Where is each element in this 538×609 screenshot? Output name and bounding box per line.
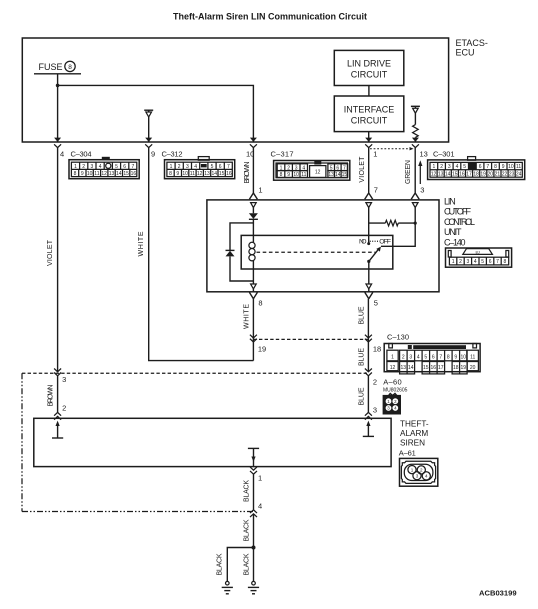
chevrons up pin2 siren (54, 412, 61, 419)
connector C-140 (446, 248, 512, 267)
wire interface to pin 1 (368, 132, 370, 142)
wire brown 3 to 2 (57, 376, 59, 413)
svg-text:8: 8 (504, 259, 507, 265)
exit triangle pin 5 (366, 284, 372, 289)
chevrons 2 on blue wire (365, 369, 372, 376)
svg-text:4: 4 (60, 149, 64, 158)
wire VIOLET pin4 down (57, 148, 59, 372)
svg-text:VIOLET: VIOLET (359, 156, 366, 183)
svg-text:8: 8 (74, 171, 77, 177)
in-line connector 19 chevrons (250, 335, 257, 342)
relay coil (249, 242, 255, 261)
svg-text:3: 3 (467, 259, 470, 265)
pin 9 ETACS connector symbol (145, 138, 152, 148)
LIN DRIVE CIRCUIT box (334, 50, 404, 85)
svg-text:9: 9 (81, 171, 84, 177)
svg-text:NO: NO (359, 239, 367, 246)
svg-text:8: 8 (494, 164, 497, 170)
svg-text:C–312: C–312 (162, 149, 183, 158)
svg-text:5: 5 (115, 164, 118, 170)
svg-text:9: 9 (502, 164, 505, 170)
svg-text:CIRCUIT: CIRCUIT (351, 70, 388, 80)
ground right (248, 581, 259, 593)
flyback diode branch wire (230, 223, 253, 250)
svg-text:5: 5 (463, 164, 466, 170)
svg-text:9: 9 (151, 149, 155, 158)
wire pivot down pin 5 (368, 261, 370, 284)
dots between NO OFF (370, 240, 379, 242)
fuse FUSE 8 (34, 61, 81, 74)
svg-text:ECU: ECU (456, 48, 475, 58)
svg-text:5: 5 (211, 164, 214, 170)
svg-text:1: 1 (391, 354, 394, 360)
svg-text:3: 3 (91, 164, 94, 170)
svg-text:16: 16 (459, 172, 465, 178)
wire pin3 down to OFF (381, 208, 415, 247)
exit triangle pin 8 (251, 284, 257, 289)
wire pin8 down (white) (252, 299, 254, 361)
connector A-61 (400, 458, 438, 486)
svg-text:21: 21 (495, 172, 501, 178)
relay box (241, 235, 393, 269)
wire fuse branch to pin 10 (58, 85, 254, 142)
svg-text:SIREN: SIREN (400, 439, 425, 448)
svg-text:2: 2 (82, 164, 85, 170)
connector C-304 (69, 157, 139, 179)
direction arrow up (green wire) (418, 160, 422, 184)
entry triangle pin 7 (366, 203, 372, 208)
LIN unit pin 1 fork (249, 193, 257, 199)
svg-text:7: 7 (496, 259, 499, 265)
svg-text:1: 1 (258, 186, 262, 195)
svg-text:22: 22 (502, 172, 508, 178)
svg-text:THEFT-: THEFT- (400, 420, 429, 429)
svg-text:LIN: LIN (444, 196, 456, 206)
svg-text:3: 3 (420, 186, 424, 195)
LIN pin 5 fork (365, 292, 373, 298)
svg-text:15: 15 (123, 171, 129, 177)
wire WHITE C-312 down (149, 148, 254, 361)
label LIN CUTOFF CONTROL UNIT C-140 (444, 196, 475, 247)
svg-text:A–60: A–60 (383, 378, 402, 387)
svg-text:12: 12 (315, 170, 321, 176)
pin 1 ETACS connector symbol (365, 138, 372, 148)
svg-text:14: 14 (445, 172, 451, 178)
junction dot pin3 wire (414, 222, 417, 225)
in-line connector 18 chevrons (365, 335, 372, 342)
svg-text:C–301: C–301 (433, 149, 455, 158)
chevrons 3 on violet wire (54, 369, 61, 376)
svg-text:15: 15 (423, 365, 429, 371)
LIN unit pin 3 fork (411, 193, 419, 199)
label THEFT-ALARM SIREN A-61 (400, 420, 429, 448)
svg-text:11: 11 (190, 171, 195, 177)
svg-text:BLACK: BLACK (216, 553, 223, 575)
svg-text:2: 2 (62, 404, 66, 413)
svg-text:BLUE: BLUE (358, 387, 365, 405)
svg-text:20: 20 (470, 365, 476, 371)
svg-text:1: 1 (170, 164, 173, 170)
svg-text:1: 1 (433, 164, 436, 170)
svg-text:15: 15 (219, 171, 225, 177)
dash-dot box left vertical (21, 373, 23, 511)
svg-text:C–140: C–140 (444, 238, 466, 248)
svg-text:8: 8 (68, 64, 72, 71)
svg-text:BLUE: BLUE (358, 306, 365, 324)
svg-text:A–61: A–61 (399, 449, 416, 458)
svg-text:18: 18 (373, 345, 381, 354)
svg-text:9: 9 (176, 171, 179, 177)
connector C-130 (384, 344, 480, 374)
wire green to resistor (414, 113, 416, 124)
svg-text:3: 3 (448, 164, 451, 170)
svg-text:16: 16 (131, 171, 137, 177)
svg-text:10: 10 (182, 171, 188, 177)
svg-text:8: 8 (280, 172, 283, 178)
svg-text:10: 10 (293, 172, 299, 178)
svg-text:4: 4 (258, 501, 262, 510)
wire black 1 to 4 (253, 474, 255, 510)
pin 13 ETACS connector symbol (412, 138, 419, 148)
svg-text:12: 12 (197, 171, 203, 177)
dash-dot box bottom (22, 511, 254, 513)
svg-text:3: 3 (62, 375, 66, 384)
svg-text:13: 13 (109, 171, 115, 177)
svg-text:BLUE: BLUE (358, 348, 365, 366)
svg-text:Theft-Alarm Siren LIN Communic: Theft-Alarm Siren LIN Communication Circ… (173, 12, 367, 22)
svg-text:2: 2 (178, 164, 181, 170)
dotted link pin1-pin13 (370, 147, 414, 150)
entry triangle pin 3 (412, 203, 418, 208)
dashed line y373 (22, 372, 368, 374)
svg-text:CIRCUIT: CIRCUIT (351, 116, 388, 126)
node green-wire source symbol (411, 106, 420, 113)
svg-text:24: 24 (516, 172, 522, 178)
theft-alarm siren box (34, 418, 391, 466)
svg-text:16: 16 (226, 171, 232, 177)
wire diode to coil (252, 219, 254, 242)
svg-text:19: 19 (461, 365, 467, 371)
svg-text:BLACK: BLACK (243, 553, 250, 575)
svg-text:BLACK: BLACK (243, 480, 250, 502)
pin 10 ETACS connector symbol (250, 138, 257, 148)
svg-text:6: 6 (479, 164, 482, 170)
svg-text:15: 15 (342, 172, 348, 178)
entry triangle pin 1 (251, 203, 257, 208)
svg-text:13: 13 (328, 172, 334, 178)
svg-text:1: 1 (373, 149, 377, 158)
svg-text:2: 2 (420, 468, 423, 473)
svg-text:20: 20 (488, 172, 494, 178)
svg-text:3: 3 (416, 474, 419, 479)
svg-text:6: 6 (123, 164, 126, 170)
svg-text:11: 11 (470, 354, 475, 360)
connector C-317 (274, 160, 350, 180)
wire pin1 to diode (252, 208, 254, 214)
svg-text:WHITE: WHITE (138, 231, 145, 256)
chevrons 1 below siren (250, 467, 257, 474)
svg-text:3: 3 (409, 354, 412, 360)
svg-text:10: 10 (461, 354, 467, 360)
svg-text:BROWN: BROWN (244, 162, 251, 184)
svg-text:19: 19 (480, 172, 486, 178)
branch wire to left ground (227, 548, 253, 582)
svg-text:14: 14 (335, 172, 341, 178)
svg-text:6: 6 (489, 259, 492, 265)
svg-text:8: 8 (258, 299, 262, 308)
svg-text:ETACS-: ETACS- (456, 38, 488, 48)
svg-text:19: 19 (258, 345, 266, 354)
svg-text:7: 7 (439, 354, 442, 360)
svg-text:9: 9 (287, 172, 290, 178)
pivot dot (367, 260, 370, 263)
svg-text:18: 18 (453, 365, 459, 371)
svg-text:1: 1 (452, 259, 455, 265)
svg-text:17: 17 (438, 365, 444, 371)
svg-text:C–317: C–317 (271, 149, 294, 158)
svg-text:WHITE: WHITE (243, 304, 250, 329)
NO terminal dot (367, 242, 370, 245)
svg-text:7: 7 (374, 186, 378, 195)
svg-text:1: 1 (258, 474, 262, 483)
LIN pin 8 fork (249, 292, 257, 298)
svg-text:4: 4 (99, 164, 102, 170)
svg-text:5: 5 (374, 299, 378, 308)
svg-text:C–304: C–304 (71, 149, 92, 158)
connector A-60 (383, 393, 400, 414)
svg-text:12: 12 (431, 172, 437, 178)
pin 4 ETACS connector symbol (54, 138, 61, 148)
svg-text:15: 15 (452, 172, 458, 178)
svg-text:8J: 8J (475, 250, 479, 255)
wire between circuit boxes (368, 86, 370, 97)
wire GREEN pin13 to LIN pin 3 (414, 148, 416, 193)
svg-text:5: 5 (481, 259, 484, 265)
node white-wire source symbol (144, 110, 153, 117)
svg-text:4: 4 (194, 164, 197, 170)
svg-text:2: 2 (440, 164, 443, 170)
connector C-312 (165, 157, 235, 179)
svg-text:4: 4 (474, 259, 477, 265)
svg-text:16: 16 (431, 365, 437, 371)
svg-text:1: 1 (74, 164, 77, 170)
chevrons up 4 (250, 510, 257, 517)
svg-text:ACB03199: ACB03199 (479, 589, 517, 598)
chevrons up pin3 siren (365, 412, 372, 419)
wire black 4 to junction (253, 514, 255, 582)
svg-text:23: 23 (509, 172, 515, 178)
svg-text:3: 3 (373, 405, 377, 414)
svg-text:9: 9 (454, 354, 457, 360)
svg-text:8: 8 (447, 354, 450, 360)
svg-text:MU802605: MU802605 (383, 388, 408, 394)
svg-text:CONTROL: CONTROL (444, 217, 475, 227)
LIN cutoff control unit box (207, 200, 439, 292)
svg-text:11: 11 (516, 164, 521, 170)
svg-text:11: 11 (301, 172, 306, 178)
svg-text:13: 13 (438, 172, 444, 178)
LIN unit pin 7 fork (365, 193, 373, 199)
svg-text:2: 2 (402, 354, 405, 360)
svg-text:BLACK: BLACK (243, 519, 250, 541)
svg-text:14: 14 (408, 365, 414, 371)
dashed linkage coil-switch (257, 251, 376, 253)
svg-text:12: 12 (390, 365, 396, 371)
svg-text:13: 13 (420, 149, 428, 158)
svg-text:GREEN: GREEN (405, 160, 412, 184)
flyback diode D2 (226, 250, 235, 256)
svg-text:7: 7 (227, 164, 230, 170)
svg-text:1: 1 (411, 467, 414, 472)
siren pin2 internal arrow (52, 421, 63, 438)
svg-text:BROWN: BROWN (48, 385, 55, 407)
svg-text:10: 10 (87, 171, 93, 177)
svg-text:UNIT: UNIT (444, 227, 462, 237)
wire pin7 down to NO (368, 208, 370, 244)
svg-text:2: 2 (459, 259, 462, 265)
wire to pin 9 (148, 117, 150, 142)
switch arm (369, 247, 381, 262)
svg-text:INTERFACE: INTERFACE (344, 105, 395, 115)
svg-text:VIOLET: VIOLET (47, 239, 54, 266)
svg-text:5: 5 (424, 354, 427, 360)
svg-text:6: 6 (432, 354, 435, 360)
svg-text:C–130: C–130 (387, 333, 409, 342)
svg-text:12: 12 (101, 171, 107, 177)
dashed line C-130 (253, 338, 368, 340)
svg-text:LIN DRIVE: LIN DRIVE (347, 59, 391, 69)
wire blue 2 to 3 (367, 376, 369, 413)
svg-text:11: 11 (94, 171, 99, 177)
svg-text:3: 3 (186, 164, 189, 170)
svg-text:FUSE: FUSE (39, 62, 63, 72)
svg-text:CUTOFF: CUTOFF (444, 207, 472, 217)
wire fuse drop to pin 4 (57, 74, 59, 142)
svg-text:ALARM: ALARM (400, 429, 428, 438)
ground junction dot (252, 546, 256, 550)
INTERFACE CIRCUIT box (334, 96, 404, 132)
wire pin5 down (blue) (367, 299, 369, 372)
svg-text:13: 13 (204, 171, 210, 177)
diode D1 (249, 213, 258, 219)
svg-text:14: 14 (116, 171, 122, 177)
resistor (LIN pull-up) (413, 125, 419, 138)
svg-text:13: 13 (401, 365, 407, 371)
connector C-301 (428, 157, 525, 180)
svg-text:17: 17 (466, 172, 472, 178)
siren pin1 internal arrow (248, 448, 259, 466)
svg-text:OFF: OFF (379, 239, 391, 246)
svg-text:4: 4 (425, 474, 428, 479)
svg-text:14: 14 (212, 171, 218, 177)
wire VIOLET C-317 pin1 to LIN pin 7 (368, 148, 370, 193)
svg-text:2: 2 (373, 378, 377, 387)
svg-text:7: 7 (132, 164, 135, 170)
ETACS-ECU box (22, 38, 448, 142)
ground left (222, 581, 233, 593)
wire coil to flyback junction and exit (252, 261, 254, 284)
svg-text:4: 4 (456, 164, 459, 170)
junction (56, 84, 60, 88)
resistor R (relay) (369, 220, 416, 226)
wire BROWN pin10 to LIN pin 1 (252, 148, 254, 193)
svg-text:18: 18 (473, 172, 479, 178)
svg-text:6: 6 (219, 164, 222, 170)
svg-text:4: 4 (417, 354, 420, 360)
wire resistor to pin 13 (414, 137, 416, 142)
svg-text:10: 10 (508, 164, 514, 170)
svg-text:8: 8 (169, 171, 172, 177)
siren pin3 internal arrow (363, 421, 374, 437)
svg-text:7: 7 (486, 164, 489, 170)
